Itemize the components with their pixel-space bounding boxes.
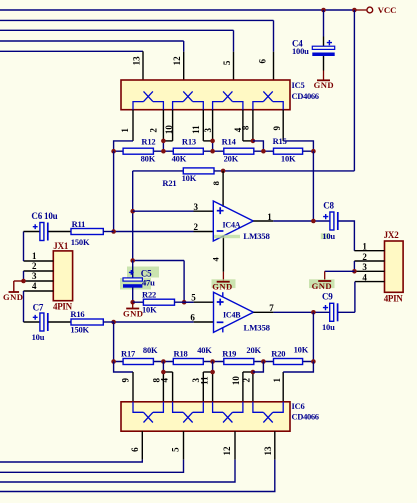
- pin 9 IC6 jog from ladder left: [114, 362, 133, 373]
- svg-text:LM358: LM358: [244, 322, 271, 332]
- node R18-R19: [210, 359, 215, 364]
- svg-text:R22: R22: [142, 289, 156, 299]
- capacitor C6 10u: [24, 231, 40, 233]
- pin 1 JX1: [24, 260, 54, 262]
- wire IC4A output to C8: [273, 220, 330, 222]
- pin 12 stub IC5 top: [183, 52, 185, 80]
- wire C9 right to JX2 pin4 column: [338, 311, 355, 313]
- pin 11 IC6: [212, 362, 214, 373]
- pin 2 IC6: [252, 372, 254, 402]
- svg-text:R19: R19: [222, 348, 236, 358]
- wire R-ladder bottom rail: [114, 361, 314, 363]
- svg-text:1: 1: [267, 212, 272, 222]
- analog switch S3 of IC5: [223, 91, 232, 101]
- pin 4 IC6 jog: [172, 372, 174, 402]
- node junction on bus 1 at C4: [321, 8, 326, 13]
- node pins 10+2 IC6: [251, 370, 256, 375]
- svg-text:IC6: IC6: [292, 401, 305, 411]
- svg-text:9: 9: [121, 377, 131, 382]
- green highlight at JX2 ground: [309, 279, 335, 288]
- wire JX2 pin4 down to C9: [354, 282, 356, 313]
- pin 13 IC6 control to left edge: [274, 431, 276, 459]
- pin 1 IC6 jog to ladder right node: [282, 372, 284, 402]
- pin 5 IC6 control to left edge: [183, 431, 185, 459]
- svg-text:JX1: JX1: [53, 241, 69, 251]
- svg-text:10K: 10K: [182, 173, 197, 183]
- svg-text:R16: R16: [70, 309, 84, 319]
- green highlight at C5 labels: [127, 267, 159, 278]
- wire R11 to inverting node: [103, 231, 113, 233]
- pin 4 IC5 jog: [242, 110, 244, 141]
- wire R-ladder top rail: [114, 150, 314, 152]
- op-amp IC4B LM358: [214, 292, 254, 332]
- analog switch S4 of IC5: [263, 91, 272, 101]
- svg-text:IC4A: IC4A: [223, 220, 241, 229]
- pin 12 IC6 control to left edge: [234, 431, 236, 459]
- wire JX1 pin4 down to C7 row: [23, 291, 25, 322]
- capacitor C5 47u: [132, 261, 134, 278]
- svg-text:GND: GND: [3, 292, 23, 302]
- svg-text:4: 4: [362, 273, 367, 283]
- svg-text:R11: R11: [72, 219, 86, 229]
- resistor R17 80K: [123, 359, 153, 365]
- wire JX1 pin1 up to C6 row: [23, 232, 25, 262]
- svg-text:GND: GND: [123, 308, 143, 318]
- svg-text:13: 13: [263, 446, 273, 456]
- wire bus line 5 to IC5 pin 13: [0, 50, 143, 52]
- node R14-R15: [261, 149, 266, 154]
- svg-text:150K: 150K: [71, 237, 90, 247]
- pin 1 JX2: [354, 250, 384, 252]
- node R22 right / pin5 line: [182, 300, 187, 305]
- pin 4 wire of IC4A to ground: [222, 236, 224, 272]
- wire feedback to bottom ladder: [312, 312, 314, 361]
- capacitor C7 10u: [24, 321, 40, 323]
- wire inverting line of IC4B: [114, 321, 194, 323]
- analog switch S4 of IC6: [263, 412, 272, 422]
- node junction on bus 1 at VCC column: [352, 8, 357, 13]
- node bottom ladder left: [111, 359, 116, 364]
- wire bus line 2 to IC5 pin 6: [0, 19, 274, 21]
- svg-text:R18: R18: [174, 348, 188, 358]
- svg-text:4: 4: [159, 377, 169, 382]
- svg-text:R14: R14: [222, 136, 237, 146]
- wire JX2 ground branch: [325, 270, 355, 272]
- svg-text:10u: 10u: [322, 231, 335, 241]
- pin 4 JX2: [355, 281, 385, 283]
- wire ladder column down to bottom ladder: [113, 322, 115, 362]
- node pins 3+11 IC6: [210, 370, 215, 375]
- svg-text:2: 2: [32, 261, 37, 271]
- connector JX1: [53, 251, 72, 301]
- pin 2 JX1: [24, 270, 54, 272]
- pin 2 stub IC4A: [194, 231, 214, 233]
- svg-text:JX2: JX2: [384, 230, 400, 240]
- analog switch S3 of IC6: [223, 412, 232, 422]
- wire non-inverting input line of IC4A: [133, 210, 194, 212]
- node pins 4+8: [251, 139, 256, 144]
- resistor R20 10K: [274, 359, 303, 365]
- analog switch S1 of IC5: [144, 91, 153, 101]
- wire VCC stub: [354, 9, 366, 11]
- svg-text:80K: 80K: [141, 154, 156, 164]
- pin 3 JX2: [354, 270, 384, 272]
- pin 1 output stub IC4A: [253, 220, 273, 222]
- ground between op-amps: [217, 281, 230, 283]
- analog switch S2 of IC5: [183, 91, 192, 101]
- pin 10 IC6 jog: [242, 372, 244, 402]
- svg-text:40K: 40K: [197, 345, 212, 355]
- wire pins 4+8 to ladder node: [253, 141, 264, 151]
- svg-text:R21: R21: [162, 178, 176, 188]
- node R21 to op-amp supply pin 8: [221, 169, 226, 174]
- svg-text:9: 9: [272, 125, 282, 130]
- resistor R14 20K: [224, 148, 254, 154]
- resistor R22 10K: [133, 301, 144, 303]
- svg-text:R13: R13: [182, 136, 196, 146]
- pin 6 stub IC4B: [194, 321, 214, 323]
- pin 2 JX2: [354, 260, 384, 262]
- svg-text:IC4B: IC4B: [223, 310, 241, 319]
- wire C8 to JX2 pin 1: [338, 221, 354, 251]
- capacitor C4 100u: [323, 10, 325, 37]
- wire pin2 to pin3 junction: [353, 261, 355, 271]
- svg-text:5: 5: [171, 447, 181, 452]
- svg-text:8: 8: [211, 181, 221, 185]
- capacitor C5 47u loop wires: [133, 260, 184, 262]
- svg-text:100u: 100u: [292, 46, 309, 56]
- node C5 top: [130, 258, 135, 263]
- node ladder right / feedback: [311, 149, 316, 154]
- svg-text:2: 2: [362, 252, 367, 262]
- pin 13 stub IC5 top: [142, 51, 144, 80]
- pin 3 JX1: [24, 280, 54, 282]
- svg-text:6: 6: [190, 313, 195, 323]
- pin 1 IC5 with jog to ladder left node: [132, 110, 134, 141]
- pin 3 IC5: [212, 110, 214, 141]
- svg-text:10: 10: [164, 125, 174, 135]
- analog switch S1 of IC6: [144, 412, 153, 422]
- node pins 2+10: [161, 139, 166, 144]
- svg-text:R12: R12: [141, 136, 155, 146]
- svg-text:R15: R15: [273, 136, 287, 146]
- wire IC4B output to C9: [273, 311, 329, 313]
- svg-text:2: 2: [149, 128, 159, 133]
- svg-text:CD4066: CD4066: [292, 412, 319, 422]
- analog switch S2 of IC6: [183, 412, 192, 422]
- svg-text:1: 1: [272, 377, 282, 382]
- wire R16 to IC4B inverting node: [103, 321, 113, 323]
- node bottom ladder right: [311, 359, 316, 364]
- resistor R18 40K: [173, 359, 203, 365]
- svg-text:3: 3: [32, 271, 37, 281]
- wire ladder right node down to output line: [312, 151, 314, 221]
- svg-text:3: 3: [194, 202, 199, 212]
- svg-text:10K: 10K: [294, 345, 309, 355]
- svg-text:5: 5: [191, 292, 196, 302]
- resistor R16 150K: [71, 319, 103, 325]
- svg-text:2: 2: [194, 222, 199, 232]
- wire inverting input line of IC4A: [114, 231, 194, 233]
- svg-text:C8: C8: [323, 201, 334, 211]
- op-amp IC4A LM358: [213, 201, 253, 241]
- wire VCC vertical to op-amp supply line: [353, 10, 355, 171]
- pin 2 IC5: [162, 110, 164, 141]
- svg-text:R20: R20: [271, 348, 285, 358]
- svg-text:40K: 40K: [172, 153, 187, 163]
- pin 9 IC5 jog to ladder right node: [282, 110, 284, 141]
- node ladder left: [111, 149, 116, 154]
- ground under C4: [317, 79, 330, 81]
- pin 8 IC5: [252, 110, 254, 141]
- node inverting line at ladder column: [111, 229, 116, 234]
- resistor R19 20K: [224, 359, 254, 365]
- node R12-R13: [161, 149, 166, 154]
- node pins 8+4 IC6: [161, 370, 166, 375]
- svg-text:VCC: VCC: [378, 5, 397, 15]
- svg-text:10K: 10K: [142, 305, 157, 315]
- pin 3 stub IC4A: [194, 210, 214, 212]
- svg-text:IC5: IC5: [292, 80, 305, 90]
- node output IC4B / C9 / feedback: [311, 310, 316, 315]
- svg-text:47u: 47u: [142, 277, 155, 287]
- green highlight under IC4A: [214, 235, 240, 238]
- svg-text:3: 3: [362, 262, 367, 272]
- svg-text:10K: 10K: [281, 153, 296, 163]
- analog switch block IC6 CD4066: [121, 402, 290, 431]
- svg-text:2: 2: [241, 377, 251, 382]
- wire bus line 3 to IC5 pin 5: [0, 29, 234, 31]
- pin 11 IC5 jog: [202, 110, 204, 141]
- svg-text:6: 6: [258, 58, 268, 63]
- pin 7 output stub IC4B: [253, 311, 273, 313]
- svg-text:10u: 10u: [32, 332, 45, 342]
- wire non-inverting line of IC4B: [184, 301, 194, 303]
- svg-text:LM358: LM358: [243, 231, 270, 241]
- svg-text:4: 4: [32, 281, 37, 291]
- resistor R11 150K: [71, 229, 103, 235]
- power port VCC: [367, 7, 373, 13]
- wire bus line 4 to IC5 pin 12: [0, 40, 184, 42]
- svg-text:CD4066: CD4066: [292, 91, 319, 101]
- ground under R22: [132, 302, 134, 308]
- svg-text:12: 12: [222, 446, 232, 456]
- svg-text:20K: 20K: [246, 345, 261, 355]
- svg-text:GND: GND: [312, 281, 332, 291]
- wire JX1 pin2 to pin3: [23, 271, 25, 281]
- svg-text:GND: GND: [314, 80, 334, 90]
- svg-text:13: 13: [131, 56, 141, 66]
- ground at JX2: [318, 280, 331, 282]
- resistor R13 40K: [173, 148, 203, 154]
- pin 6 stub IC5 top: [273, 52, 275, 80]
- wire JX1 ground branch: [14, 280, 24, 282]
- svg-text:11: 11: [191, 125, 201, 134]
- node pins 11+3: [210, 139, 215, 144]
- node output / feedback / C8: [311, 219, 316, 224]
- svg-text:GND: GND: [212, 282, 232, 292]
- svg-text:8: 8: [240, 125, 250, 130]
- capacitor C8 10u: [330, 212, 334, 230]
- pin 5 stub IC5 top: [233, 52, 235, 80]
- resistor R15 10K: [274, 148, 303, 154]
- pin 10 IC5 jog: [172, 110, 174, 141]
- svg-text:1: 1: [362, 242, 367, 252]
- node R17-R18: [161, 359, 166, 364]
- node R19-R20: [261, 359, 266, 364]
- node C5 bottom / R22 left / ground: [130, 300, 135, 305]
- svg-text:10u: 10u: [322, 322, 335, 332]
- svg-text:1: 1: [32, 251, 37, 261]
- pin 3 IC6 jog: [202, 372, 204, 402]
- wire R21 left vertical: [132, 171, 134, 261]
- resistor R12 80K: [123, 148, 153, 154]
- svg-text:C7: C7: [33, 303, 44, 313]
- ground at JX1: [9, 291, 19, 293]
- svg-text:R17: R17: [121, 348, 136, 358]
- node inverting line at ladder column: [111, 320, 116, 325]
- svg-text:1: 1: [120, 128, 130, 133]
- wire pins 10+2 to ladder node: [253, 362, 264, 373]
- svg-text:6: 6: [130, 447, 140, 452]
- connector JX2: [385, 241, 404, 292]
- svg-text:C6 10u: C6 10u: [31, 211, 57, 221]
- svg-text:11: 11: [199, 376, 209, 385]
- pin 8 IC6: [162, 362, 164, 373]
- node at non-inverting line: [130, 209, 135, 214]
- svg-text:12: 12: [172, 56, 182, 66]
- svg-text:10: 10: [231, 376, 241, 386]
- op-amp IC4 analog switch block IC5 CD4066: [121, 80, 290, 110]
- svg-text:20K: 20K: [224, 153, 239, 163]
- capacitor C9 10u: [330, 303, 334, 321]
- node JX1 pin3 ground: [21, 279, 26, 284]
- green highlight at op-amp ground: [212, 279, 236, 288]
- node R13-R14: [210, 149, 215, 154]
- pin 6 IC6 control to left edge: [141, 431, 143, 459]
- wire ladder left node down to inverting input line: [113, 151, 115, 231]
- svg-text:80K: 80K: [143, 345, 158, 355]
- svg-text:4PIN: 4PIN: [384, 294, 404, 304]
- svg-text:C9: C9: [322, 292, 333, 302]
- wire bus line 1 (VCC rail): [0, 9, 354, 11]
- pin 5 stub IC4B: [194, 301, 214, 303]
- svg-text:3: 3: [203, 127, 213, 132]
- svg-text:5: 5: [222, 60, 232, 65]
- svg-text:150K: 150K: [70, 325, 89, 335]
- pin 4 JX1: [24, 290, 54, 292]
- node JX2 pin3 / ground: [352, 269, 357, 274]
- resistor R21 10K feedback row: [133, 170, 184, 172]
- pin 8 wire of op-amp IC4A: [222, 171, 224, 207]
